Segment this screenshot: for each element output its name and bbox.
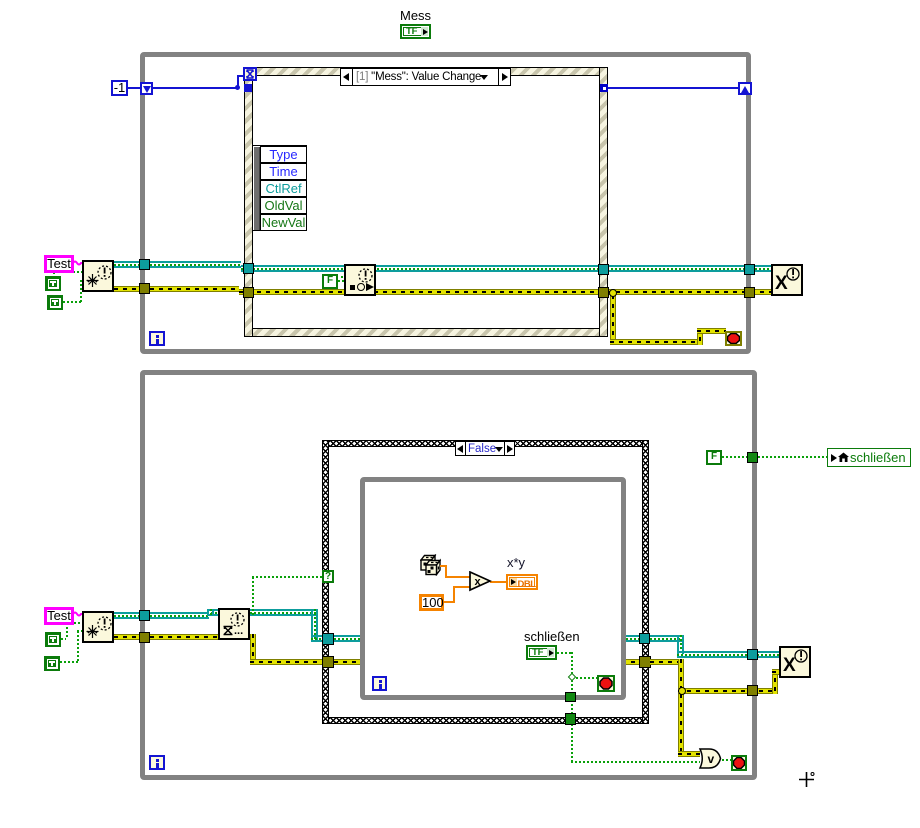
event structure left tunnel refnum (243, 263, 254, 274)
wire F riser (341, 276, 343, 280)
wire string Test2 to open node (wavy) (73, 611, 83, 619)
loop2 conditional stop terminal (731, 755, 747, 771)
shift register right (738, 82, 752, 95)
wire 100 riser (453, 586, 455, 601)
while loop 2 border (140, 370, 757, 780)
VI refnum wire node to event structure (114, 261, 241, 268)
numeric constant -1 (111, 80, 128, 96)
wire multiply to DBL indicator (490, 581, 507, 583)
wire dice to multiply (440, 565, 447, 567)
event structure border bottom (244, 328, 608, 337)
VI refnum wire event to close node (607, 265, 771, 272)
label x*y (507, 555, 525, 570)
error wire down (250, 634, 256, 665)
wire T2b into node (77, 630, 82, 632)
error wire branch up (697, 328, 703, 345)
loop2 right tunnel refnum (747, 649, 758, 660)
event data node (252, 145, 307, 231)
loop1 conditional stop terminal (725, 331, 742, 346)
loop2 left tunnel refnum (139, 610, 150, 621)
wire string Test to open node (wavy) (73, 260, 83, 268)
wire into case selector (252, 576, 322, 578)
mouse cursor crosshair (798, 771, 816, 789)
wire junction on error wire (loop2) (678, 687, 686, 695)
error wire node to event structure (114, 286, 239, 292)
error wire inside event structure (239, 289, 600, 295)
VI refnum wire to close node (677, 651, 779, 658)
wire dice into multiply (445, 576, 470, 578)
string constant Test (loop2) (44, 607, 74, 625)
VI refnum wire inside event structure (241, 265, 600, 272)
label Mess (400, 8, 431, 23)
case left tunnel refnum (322, 633, 334, 645)
case selector terminal (322, 570, 334, 583)
wire F to generate event node (338, 280, 344, 282)
error wire into OR gate (678, 751, 700, 757)
wire boolean to OR gate (571, 761, 700, 763)
wait node (218, 608, 250, 640)
wire junction on error wire (609, 289, 617, 297)
VI refnum wire down (677, 635, 684, 654)
svg-text:v: v (708, 752, 715, 766)
multiply function (469, 571, 492, 592)
wire T2 to open node (63, 301, 81, 303)
VI refnum wire open node to wait node (114, 612, 209, 619)
wire T2b riser (77, 631, 79, 662)
case structure border top (322, 440, 649, 447)
VI refnum wire jog riser (207, 609, 214, 616)
error wire branch bottom run (610, 339, 703, 345)
case selector label False (455, 441, 515, 456)
boolean constant T1 (45, 276, 61, 291)
boolean constant T2 (loop2) (44, 656, 60, 671)
VI refnum wire into case tunnel (311, 635, 336, 642)
wire T2 into node (80, 280, 82, 282)
case structure border left (322, 440, 329, 724)
inner while loop background (360, 477, 626, 700)
boolean control terminal schliessen TF (526, 645, 557, 660)
random number dice icon (420, 554, 441, 576)
loop2 left tunnel error (139, 632, 150, 643)
loop1 right tunnel refnum (744, 264, 755, 275)
loop2 right tunnel boolean (747, 452, 758, 463)
or function (698, 748, 722, 770)
error wire into close node (772, 669, 779, 675)
wire T1 to open node (53, 271, 82, 273)
loop1 left tunnel error (139, 283, 150, 294)
event structure border right (599, 67, 608, 337)
case bottom tunnel boolean (565, 713, 576, 725)
boolean constant T1 (loop2) (45, 632, 61, 647)
error wire across case (334, 659, 646, 665)
wire to case selector (252, 577, 254, 615)
error wire junction to loop border (678, 688, 776, 694)
wire event right tunnel to right shift register (608, 87, 738, 89)
error wire branch down (610, 295, 616, 345)
event structure border top (244, 67, 608, 76)
open reference node (loop2) (82, 611, 114, 643)
event structure right tunnel refnum (598, 264, 609, 275)
wire T1b stub (61, 638, 66, 640)
numeric constant 100 (419, 594, 444, 611)
wire OR to stop terminal (722, 759, 731, 761)
event structure right tunnel error (598, 287, 609, 298)
VI refnum wire across case (334, 635, 646, 642)
event structure border left (244, 67, 253, 337)
case structure border right (642, 440, 649, 724)
wire into timeout terminal (237, 75, 244, 77)
wire shift register to junction (152, 87, 239, 89)
wire T1 stub (53, 272, 55, 276)
boolean constant T2 (47, 295, 63, 310)
loop2 iteration terminal i (149, 755, 165, 770)
error wire open node to corner (114, 634, 256, 640)
error wire into case tunnel (250, 659, 336, 665)
error wire case to corner (650, 659, 684, 665)
inner loop iteration terminal i (372, 676, 387, 691)
event structure left tunnel error (243, 287, 254, 298)
wire 100 into multiply (453, 586, 470, 588)
wire T1b riser (66, 623, 68, 639)
close reference node (loop1) (771, 264, 803, 296)
wire T2 vertical (80, 280, 82, 302)
event timeout terminal hourglass (243, 67, 257, 81)
shift register left (140, 82, 153, 95)
junction dot blue wire (235, 85, 240, 90)
boolean constant F (loop2) (706, 450, 722, 465)
error wire down to junction (678, 659, 684, 694)
case left tunnel error (322, 656, 334, 668)
inner loop bottom tunnel boolean (565, 692, 576, 702)
event structure right tunnel blue unwired (600, 84, 608, 92)
error wire event to close node (607, 289, 771, 295)
wire T1b to open node (66, 622, 82, 624)
loop1 right tunnel error (744, 287, 755, 298)
VI refnum wire drop (311, 609, 318, 642)
loop1 iteration terminal i (149, 331, 165, 346)
case right tunnel error (639, 656, 651, 668)
open reference node (loop1) (82, 260, 114, 292)
wire T2b to open node (60, 661, 78, 663)
wire -1 to left shift register (128, 87, 141, 89)
case right tunnel refnum (639, 633, 650, 644)
wire dice riser (445, 565, 447, 577)
generate user event node (344, 264, 376, 296)
indicator terminal DBL (506, 574, 538, 590)
boolean control terminal Mess TF (400, 24, 431, 39)
boolean constant F (event case) (322, 274, 338, 289)
error wire branch into stop terminal (697, 328, 726, 334)
event structure selector label (340, 68, 511, 86)
string constant Test (44, 255, 74, 273)
event structure left tunnel blue (244, 84, 252, 92)
VI refnum wire case to corner (650, 635, 684, 642)
wire junction diamond (568, 673, 576, 681)
wire junction to inner stop terminal (576, 677, 597, 679)
inner while loop border (360, 477, 626, 700)
error wire junction down to OR (678, 694, 684, 757)
error wire up to close node (772, 669, 778, 694)
wire junction down through tunnels (571, 652, 573, 762)
wire 100 to multiply (444, 601, 455, 603)
VI refnum wire wait node to case (250, 609, 316, 616)
loop1 left tunnel refnum (139, 259, 150, 270)
case structure border bottom (322, 717, 649, 724)
svg-text:x: x (475, 576, 482, 588)
wire junction up to timeout terminal (237, 75, 239, 87)
inner loop conditional stop terminal (597, 675, 615, 692)
while loop 1 border (140, 52, 751, 354)
loop2 right tunnel error (747, 685, 758, 696)
wire TF to junction (557, 652, 572, 654)
wire F2 to schliessen indicator (722, 456, 830, 458)
boolean indicator schliessen (827, 448, 911, 467)
label schliessen (inner) (524, 629, 580, 644)
wire F into node (341, 276, 344, 278)
VI refnum wire jog (207, 609, 218, 616)
close reference node (loop2) (779, 646, 811, 678)
